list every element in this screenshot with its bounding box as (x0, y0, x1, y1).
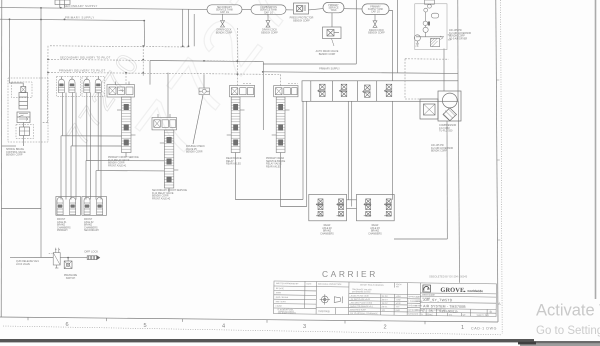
svg-text:FRONT AXLE #1: FRONT AXLE #1 (108, 164, 127, 167)
wire dblcheck drop (203, 74, 205, 88)
svg-text:RE DATE: RE DATE (276, 287, 285, 290)
svg-text:SECONDARY: SECONDARY (84, 229, 100, 232)
svg-text:±1/64: ±1/64 (396, 296, 401, 298)
svg-text:BENDIX CORP: BENDIX CORP (293, 20, 310, 23)
wire valve4 down (281, 153, 307, 207)
svg-text:PSI: PSI (416, 46, 419, 48)
svg-text:CARRIER: CARRIER (322, 269, 378, 279)
wire tank4 out corner (389, 11, 393, 81)
svg-text:CAP. 1G: CAP. 1G (371, 10, 380, 13)
wire vert x397.5 (397, 0, 399, 73)
svg-text:BENDIX CORP: BENDIX CORP (6, 154, 23, 157)
sheet right border zone ticks (496, 80, 500, 240)
svg-text:PRIMARY SUPPLY: PRIMARY SUPPLY (319, 68, 340, 71)
svg-text:FINISH: FINISH (276, 306, 283, 308)
svg-text:FIN TO ASTM B.L. TOLERANCE: FIN TO ASTM B.L. TOLERANCE (350, 312, 378, 315)
spring brake control valve assembly (8, 78, 48, 142)
svg-text:BENDIX CORP.: BENDIX CORP. (186, 151, 203, 154)
svg-text:BENDIX CORP: BENDIX CORP (261, 31, 278, 34)
wire valve2 left feed (2, 145, 17, 147)
wire corner at 263 (262, 62, 264, 130)
svg-text:BENDIX CORP: BENDIX CORP (319, 53, 336, 56)
svg-text:B: B (490, 310, 492, 314)
wire valve2 port left y170.6 (96, 170, 164, 172)
svg-text:CAD-1 DWG: CAD-1 DWG (471, 327, 497, 331)
vertical body (122, 97, 132, 153)
svg-text:±1/32: ±1/32 (396, 299, 401, 301)
wire chamber feed x303 (302, 101, 304, 199)
svg-text:BENDIX CORP: BENDIX CORP (216, 31, 233, 34)
wire chamber feed x306.7 (306, 101, 308, 206)
wire dashed governor (405, 59, 420, 99)
drain cock 4 (373, 15, 377, 28)
inner symbol of bottom dashed box (20, 127, 30, 136)
chamber symbols 2x2 in box 1 (316, 199, 344, 216)
svg-text:APPROVED: APPROVED (408, 313, 419, 316)
wire tank1-tank2 (242, 9, 251, 11)
svg-text:DATE: DATE (306, 282, 312, 285)
wire vert x9.5 (8, 19, 10, 83)
sheet bottom border (0, 317, 498, 322)
wire dashed vert x280 to valve4 (280, 74, 282, 85)
sheet left border (0, 0, 3, 317)
pressure protector valve (294, 3, 309, 14)
svg-text:DWG / BLANK: DWG / BLANK (276, 296, 289, 299)
pressure switch (64, 258, 72, 269)
svg-text:AIR SYSTEM - TMS700B: AIR SYSTEM - TMS700B (423, 304, 466, 309)
wire vert x458 lower (458, 101, 459, 282)
wire auto-drain enclosure bottom (263, 63, 356, 65)
sheet dotted right edge (501, 0, 503, 334)
middle section (316, 306, 348, 308)
drain cock 2 (266, 14, 270, 27)
wire dashed vert x237 to valve3 (236, 28, 238, 86)
lower control valve (17, 112, 30, 123)
svg-text:3: 3 (303, 324, 306, 330)
reservoir tank 3 (primary) (323, 2, 344, 12)
svg-text:100-135 PSI: 100-135 PSI (449, 30, 462, 32)
svg-text:BENDIX CORP: BENDIX CORP (449, 36, 465, 38)
svg-text:SWITCH: SWITCH (66, 277, 76, 280)
reservoir tank 1 (secondary service) (207, 5, 242, 14)
svg-text:MAT / B.WT: MAT / B.WT (276, 300, 287, 303)
svg-text:±0.02: ±0.02 (396, 303, 401, 305)
wire relay2 vert feed (167, 73, 169, 118)
svg-text:PART NAME: PART NAME (422, 294, 435, 297)
wire dashed vert x126 (125, 73, 127, 85)
svg-text:TU-FLO 550: TU-FLO 550 (439, 130, 453, 133)
svg-text:6: 6 (65, 322, 68, 328)
gauge (414, 35, 420, 41)
wire left border lower (2, 208, 42, 210)
svg-text:REAR AXLES: REAR AXLES (226, 163, 241, 166)
svg-text:3RD ANGLE PROJECTION: 3RD ANGLE PROJECTION (318, 283, 342, 286)
svg-text:TMS700B: TMS700B (318, 309, 330, 313)
svg-text:GROVE: GROVE (440, 287, 464, 294)
svg-text:AT NAME: AT NAME (422, 297, 431, 300)
svg-text:2: 2 (383, 324, 386, 330)
wire valve3 down (236, 153, 304, 200)
svg-text:PRIMARY DELIVERY TO PILOT: PRIMARY DELIVERY TO PILOT (59, 68, 106, 72)
wire valve1 port left y136 (61, 135, 122, 137)
svg-text:WRITTEN APPROVED BY: WRITTEN APPROVED BY (276, 282, 299, 285)
svg-text:4: 4 (222, 324, 225, 330)
left section grid (274, 285, 349, 288)
svg-text:SE 0.2: SE 0.2 (382, 303, 388, 305)
svg-text:OTHERWISE NOTED: OTHERWISE NOTED (352, 291, 371, 293)
wire chamber feed x348.3 (347, 101, 349, 200)
quick release valve (49, 248, 61, 268)
svg-text:.XX DEC PLACE ±0.03: .XX DEC PLACE ±0.03 (350, 298, 370, 301)
wire relay1 body bottom (125, 153, 127, 158)
watermark 77270 small (61, 45, 148, 151)
svg-text:CHAMBERS: CHAMBERS (320, 232, 334, 235)
wire between chamber boxes (347, 199, 357, 201)
svg-text:1=1: 1=1 (449, 314, 452, 316)
wire primary supply drop (143, 21, 145, 46)
wire vert x458 right supply (457, 0, 459, 81)
fscm (396, 284, 402, 288)
svg-text:APPR: APPR (276, 291, 282, 294)
left section tiny text (276, 282, 313, 315)
wire vert x59.8 top component (59, 0, 61, 8)
wire cartridge bottoms down (62, 93, 64, 136)
wire compressor drop (443, 49, 445, 92)
svg-text:THE SHOP CORNER: THE SHOP CORNER (278, 312, 297, 314)
wire supply right run 2 (263, 72, 458, 74)
svg-text:SE 0.8: SE 0.8 (382, 296, 388, 298)
svg-text:BENDIX CORP: BENDIX CORP (368, 32, 385, 35)
wire drop x96 (95, 171, 97, 200)
reservoir tank 4 (wet tank) (362, 4, 389, 15)
sheet right border (496, 0, 498, 322)
svg-text:TANK: TANK (331, 9, 337, 12)
air dryer / governor internals (414, 0, 444, 47)
wire tank2-protector (286, 9, 293, 11)
wire vert x64 top component (64, 0, 66, 8)
svg-text:.X DEC PLACE ±0.06: .X DEC PLACE ±0.06 (350, 294, 368, 297)
wire protector-tank3 (309, 9, 324, 10)
svg-text:SECONDARY DELIVERY TO PILOT: SECONDARY DELIVERY TO PILOT (60, 56, 111, 60)
wire relay1 feed (149, 61, 151, 85)
viewer right edge (595, 0, 597, 299)
wire dashed secondary delivery (48, 59, 150, 60)
svg-text:DO NOT SCALE DRAWING: DO NOT SCALE DRAWING (360, 283, 384, 286)
wire valve2 port left y160.5 (86, 160, 164, 162)
GROVE logo cell (423, 285, 431, 292)
wire dashed secondary delivery right (204, 60, 237, 62)
svg-text:DATE: DATE (416, 295, 421, 298)
svg-text:ANGLE TOLERANCE ±0.5: ANGLE TOLERANCE ±0.5 (350, 305, 373, 308)
approvals column (408, 295, 422, 315)
projection symbol (319, 294, 342, 305)
spring brake valve symbols inside box (318, 84, 393, 97)
approvals section (407, 293, 420, 295)
wire vert x182.7 (182, 9, 184, 46)
svg-text:9-294-000115: 9-294-000115 (439, 309, 458, 313)
wire dashed governor horiz (405, 58, 449, 60)
side ports (117, 109, 122, 111)
pressure regulator cylinder (19, 93, 28, 110)
bottom dark bar right (534, 341, 600, 344)
wire dashed stubs above valve4 (288, 83, 298, 85)
svg-text:OBSOLETED BY EX-294-100043: OBSOLETED BY EX-294-100043 (429, 275, 468, 279)
wire valve to diff lock (60, 257, 87, 259)
wire dashed primary delivery (48, 72, 281, 74)
svg-text:±0.5: ±0.5 (396, 306, 400, 308)
tolerance section (349, 293, 408, 296)
wire secondary supply (0, 8, 207, 10)
cartridge symbols: arched top, hatched body (58, 79, 101, 92)
wire supply right run (150, 61, 263, 62)
svg-text:03/28/96: 03/28/96 (415, 305, 422, 307)
top box (107, 85, 135, 97)
svg-text:CAP. 1G: CAP. 1G (220, 11, 229, 14)
svg-text:SE 0.1: SE 0.1 (382, 306, 388, 308)
wire bottom left horiz (10, 256, 53, 258)
svg-text:worldwide: worldwide (466, 289, 483, 293)
svg-text:Go to Setting: Go to Setting (536, 325, 600, 337)
wire compressor down (446, 121, 448, 239)
wire between chamber boxes 2 (347, 208, 357, 210)
wire relay2 bottom (168, 188, 170, 192)
svg-text:FL: FL (421, 314, 423, 316)
wire dashed vert x48 (47, 46, 49, 123)
svg-text:BENDIX CORP: BENDIX CORP (431, 151, 447, 153)
svg-text:MACHINED SURF: MACHINED SURF (350, 308, 367, 311)
wire vert x194 (193, 14, 195, 46)
watermark 77270 large (119, 0, 347, 173)
svg-text:SE 0.4: SE 0.4 (382, 299, 388, 301)
wire front cartridge stubs (61, 76, 63, 79)
dashed delivery lines (41, 28, 448, 122)
svg-text:CAP. 1G: CAP. 1G (264, 11, 273, 14)
wire auto-drain enclosure right (355, 0, 357, 64)
svg-text:125: 125 (382, 310, 385, 312)
svg-text:03/28/96: 03/28/96 (416, 301, 423, 303)
middle section (318, 283, 342, 314)
drain cock 1 (221, 14, 225, 27)
svg-text:FRONT AXLE #2: FRONT AXLE #2 (152, 197, 171, 200)
wire chamber feed x351.7 (351, 101, 353, 206)
top box (152, 118, 177, 130)
reservoir tank 2 (251, 5, 286, 14)
svg-text:100-135 PSI: 100-135 PSI (431, 145, 444, 147)
svg-text:CHAMBERS: CHAMBERS (368, 232, 382, 235)
svg-text:REAR AXLES: REAR AXLES (266, 165, 281, 168)
vertical body (164, 130, 174, 188)
svg-text:A: A (498, 301, 501, 306)
sheet dotted bottom edge (3, 326, 501, 335)
title text rows (421, 294, 492, 317)
svg-text:SHEET 1 OF 1: SHEET 1 OF 1 (477, 315, 490, 317)
chamber symbols 2x2 in box 2 (364, 199, 392, 216)
auto drain valve (323, 13, 342, 46)
bottom gray strip right (520, 343, 600, 346)
svg-text:DIFF LOCK: DIFF LOCK (85, 250, 99, 254)
svg-text:LOCK VALVE: LOCK VALVE (16, 263, 30, 266)
wire chamber feed x392.5 (392, 101, 394, 200)
svg-text:PRIMARY SUPPLY: PRIMARY SUPPLY (65, 15, 95, 19)
svg-text:PRIMARY: PRIMARY (57, 229, 68, 232)
top component box at x55-70 (55, 0, 70, 5)
svg-text:Activate W: Activate W (536, 302, 600, 320)
zone numbers (65, 322, 464, 331)
svg-text:D-2 AIR GOVERNOR: D-2 AIR GOVERNOR (431, 147, 453, 150)
bottom dark bar left (0, 339, 534, 342)
wire vert x41 (40, 8, 42, 258)
tolerance text (350, 283, 401, 315)
wire drop x71 (70, 146, 72, 200)
wire vert x188.5 (188, 9, 190, 46)
wire drop x61 (60, 136, 62, 200)
zone tick marks (28, 317, 425, 324)
svg-text:5: 5 (143, 323, 146, 329)
svg-text:AD-9 AIR DRYER: AD-9 AIR DRYER (449, 37, 468, 40)
wire dashed y46 (50, 46, 189, 47)
title block outline (274, 281, 497, 317)
svg-text:.XXX DEC PLACE ±0.010: .XXX DEC PLACE ±0.010 (350, 301, 372, 304)
svg-text:D-2 AIR GOVERNOR: D-2 AIR GOVERNOR (449, 32, 471, 35)
svg-text:SCALE: SCALE (427, 313, 434, 316)
wire valve1 port left y146 (71, 145, 122, 147)
governor hatched box (431, 38, 440, 46)
svg-text:-UN-: -UN- (428, 309, 434, 313)
wire compressor horiz (394, 238, 447, 240)
wire dblcheck leader (193, 95, 203, 144)
svg-text:1: 1 (461, 325, 464, 331)
wire drop x86 (85, 161, 87, 200)
wire tank3-tank4 (344, 8, 362, 10)
wire primary supply (0, 19, 144, 20)
svg-text:QUIK RELEASE VALV: QUIK RELEASE VALV (16, 260, 39, 263)
right cells (420, 292, 496, 295)
wire dashed vert x143 (142, 46, 144, 77)
